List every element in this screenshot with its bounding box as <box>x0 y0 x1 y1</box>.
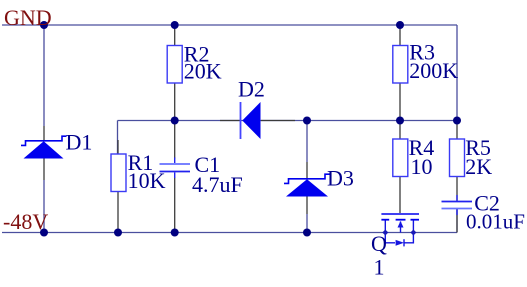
resistor R2 <box>167 46 182 84</box>
label C2 <box>474 191 500 216</box>
wire R5 bottom lead <box>456 177 458 202</box>
svg-text:Q: Q <box>371 231 387 256</box>
wire C2 bottom corner <box>456 208 458 233</box>
svg-text:GND: GND <box>4 5 52 30</box>
wire -48V bottom bus <box>2 232 457 234</box>
wire R2 bottom lead <box>174 83 176 121</box>
junction mid bus / D3 <box>303 117 311 125</box>
value R4 10 <box>411 154 433 179</box>
wire C1 top lead <box>174 121 176 159</box>
zener diode D3 <box>284 174 330 196</box>
pin number 1 <box>374 255 385 280</box>
label R4 <box>409 135 435 160</box>
junction top bus / D1 <box>40 21 48 29</box>
wire C1 bottom lead <box>174 178 176 233</box>
wire R4 top lead <box>399 121 401 140</box>
svg-text:4.7uF: 4.7uF <box>192 172 243 197</box>
junction bottom bus / D3 <box>303 229 311 237</box>
junction bottom bus / R1 <box>114 229 122 237</box>
label R5 <box>465 135 491 160</box>
junction mid bus / R4 <box>396 117 404 125</box>
wire D3 top lead <box>306 121 308 179</box>
wire D2 right lead <box>261 120 295 122</box>
net label GND <box>4 5 52 30</box>
wire D2 left lead <box>220 120 240 122</box>
wire R1 bottom lead <box>117 192 119 233</box>
svg-text:0.01uF: 0.01uF <box>466 210 525 234</box>
wire middle bus <box>118 120 458 122</box>
label R3 <box>409 39 435 64</box>
junction mid bus / C1 <box>171 117 179 125</box>
value R3 200K <box>409 58 458 83</box>
svg-text:D3: D3 <box>327 165 354 190</box>
junction top bus / R3 <box>396 21 404 29</box>
svg-text:10: 10 <box>411 154 433 179</box>
junction mid bus / R5 <box>453 117 461 125</box>
capacitor C1 <box>160 158 191 179</box>
junction top bus / R2 <box>171 21 179 29</box>
svg-text:200K: 200K <box>409 58 458 83</box>
value R1 10K <box>128 168 166 193</box>
label R1 <box>128 150 154 175</box>
resistor R4 <box>393 139 408 177</box>
label D3 <box>327 165 354 190</box>
svg-text:2K: 2K <box>465 154 492 179</box>
junction bottom bus / C1 <box>171 229 179 237</box>
wire D1 top lead <box>43 25 45 141</box>
label C1 <box>195 152 221 177</box>
label D1 <box>66 130 93 155</box>
net label -48V <box>3 209 48 234</box>
wire D3 bottom lead <box>306 197 308 233</box>
wire R5 top lead <box>456 121 458 140</box>
svg-text:D2: D2 <box>238 77 265 102</box>
wire middle-left vertical to R1 <box>117 121 119 155</box>
wire D1 bottom lead <box>43 159 45 233</box>
wire R4 bottom lead to gate <box>399 177 401 214</box>
label R2 <box>184 42 210 67</box>
wire R3 top lead <box>399 25 401 46</box>
zener diode D1 <box>21 136 67 158</box>
resistor R5 <box>450 139 465 177</box>
value C2 0.01uF <box>466 210 525 234</box>
value R5 2K <box>465 154 492 179</box>
junction bottom bus / D1 <box>40 229 48 237</box>
wire R2 top lead <box>174 25 176 46</box>
svg-text:-48V: -48V <box>3 209 48 234</box>
svg-text:D1: D1 <box>66 130 93 155</box>
value C1 4.7uF <box>192 172 243 197</box>
label D2 <box>238 77 265 102</box>
svg-text:10K: 10K <box>128 168 166 193</box>
wire R3 bottom lead <box>399 83 401 121</box>
wire C2 bottom lead <box>456 209 458 233</box>
resistor R1 <box>111 154 126 192</box>
capacitor C2 <box>442 195 473 215</box>
wire R1 top lead <box>117 140 119 154</box>
label Q <box>371 231 387 256</box>
value R2 20K <box>184 59 222 84</box>
transistor Q1 MOSFET <box>381 214 419 246</box>
svg-text:1: 1 <box>374 255 385 280</box>
wire GND top bus <box>2 24 457 26</box>
diode D2 <box>241 102 261 139</box>
wire right vertical from top bus corner <box>456 25 458 121</box>
resistor R3 <box>393 46 408 84</box>
svg-text:20K: 20K <box>184 59 222 84</box>
